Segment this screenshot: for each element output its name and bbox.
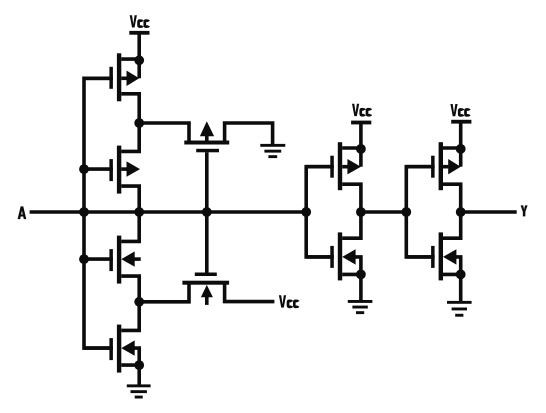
VCC rail bar (stage 3) (451, 120, 471, 124)
wire: Q2 drain to input node (121, 186, 139, 212)
input label A (18, 206, 27, 219)
wire: stage-2 input gate bus (306, 167, 334, 257)
wire: output line to Y (461, 210, 517, 214)
node: gate bus dot at Q3 gate (79, 254, 89, 264)
VCC rail bar (top left) (129, 31, 149, 35)
wire: VCC1 down to Q1 source/body bus (137, 34, 141, 79)
node: gate junction dot on node line (202, 207, 212, 217)
transistor Q10 (n-channel, stage-3 inverter) (439, 232, 443, 280)
node: Q8 source-body junction dot (356, 270, 366, 280)
wire: Q1 source lead (121, 57, 141, 61)
wire: Q6 left lead to node2 (139, 283, 189, 302)
wire: Q5/Q6 gate line crossing node (205, 152, 209, 272)
wire: node1 to Q5 left lead (139, 123, 189, 143)
node: stage-2 output dot (356, 207, 366, 217)
transistor Q5 (feedback, horizontal above node line) (184, 141, 229, 145)
output label Y (521, 205, 528, 216)
wire: VCC2 down to Q7 source/body bus (359, 123, 363, 167)
VCC label (stage-3 rail) (450, 104, 457, 116)
wire: Q10 drain up to output (443, 212, 461, 238)
wire: Q8 source lead (342, 273, 362, 277)
ground (stage 3) (447, 301, 472, 304)
wire: VCC3 down to Q9 source/body bus (459, 122, 463, 167)
node: dot drain-bus junction (134, 207, 144, 217)
wire: Q7 drain to stage-2 output (342, 184, 361, 212)
wire: Q8 drain up to stage-2 output (342, 212, 361, 238)
wire: Q3 source to node2 (121, 276, 139, 302)
wire: Q4 drain up to node2 (121, 302, 139, 331)
node: node1 dot (between Q1 and Q2) (134, 118, 144, 128)
transistor Q1 (p-channel, top of input stack) (117, 53, 121, 101)
transistor Q9 (p-channel, stage-3 inverter) (439, 142, 443, 190)
wire: Q2 source up to node1 (121, 123, 139, 151)
wire: Q9 source lead (443, 146, 462, 150)
node: stage-3 output dot (456, 207, 466, 217)
ground (stage 2) (348, 300, 373, 303)
wire: Q1 drain to node1 (121, 94, 139, 123)
wire: Q7 source lead (342, 146, 362, 150)
ground (input stack) (127, 384, 151, 387)
wire: Q10 source down to ground (459, 274, 463, 303)
wire: Q4 source lead (121, 363, 141, 367)
node: dot A-bus junction (79, 207, 89, 217)
wire: stage-2 output to stage-3 input (361, 210, 406, 214)
transistor Q2 (p-channel, second of input stack) (117, 146, 121, 194)
transistor Q4 (n-channel, bottom of input stack) (117, 325, 121, 373)
node: stage-2 input dot (301, 207, 311, 217)
node: Q4 source-body junction dot (134, 360, 144, 370)
transistor Q8 (n-channel, stage-2 inverter) (338, 232, 342, 280)
node: Q7 source-body junction dot (356, 144, 366, 154)
VCC label (top left rail) (130, 15, 137, 27)
wire: Q6 right lead to VCC (225, 283, 275, 302)
wire: stage-3 input gate bus (406, 167, 434, 257)
ground (feedback transistor Q5) (260, 144, 285, 147)
wire: Q8 source down to ground (359, 274, 363, 302)
VCC label (stage-2 rail) (352, 104, 359, 116)
node: stage-3 input dot (401, 207, 411, 217)
wire: Q9 drain to output (443, 184, 461, 212)
wire: Q8 body lead bends to source (355, 257, 361, 275)
transistor Q6 (feedback, horizontal below node line) (195, 273, 217, 277)
VCC rail bar (stage 2) (351, 121, 371, 125)
VCC label (Q6 supply) (279, 295, 286, 307)
wire: Q4 source down to ground (137, 365, 141, 386)
wire: main input node line (30, 210, 307, 214)
node: Q10 source-body junction dot (456, 270, 466, 280)
transistor Q3 (n-channel, third of input stack) (117, 236, 121, 284)
wire: Q10 source lead (443, 273, 462, 277)
node: Q9 source-body junction dot (456, 144, 466, 154)
node: Q1 source-body junction dot (134, 55, 144, 65)
node: gate bus dot at Q2 gate (79, 164, 89, 174)
wire: input gate bus (84, 78, 113, 348)
wire: Q10 body lead bends to source (455, 257, 460, 275)
transistor Q7 (p-channel, stage-2 inverter) (338, 142, 342, 190)
node: node2 dot (between Q3 and Q4) (134, 297, 144, 307)
wire: Q5 right lead to ground (225, 123, 273, 144)
wire: Q4 body lead bends to source (134, 348, 140, 365)
wire: Q3 drain up to input node (121, 212, 139, 241)
